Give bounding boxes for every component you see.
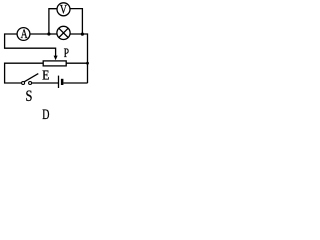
- wire: switch right contact to battery: [32, 82, 58, 84]
- rheostat P body: [43, 61, 66, 66]
- wire: lamp to right edge and down right side: [70, 34, 87, 83]
- junction: rheostat right lead at right edge wire: [86, 62, 89, 65]
- svg-text:A: A: [21, 26, 28, 41]
- battery E short thick plate: [61, 79, 64, 85]
- svg-text:P: P: [64, 45, 69, 60]
- lamp cross stroke 1: [59, 28, 68, 37]
- wire: voltmeter right lead with corner down to row2: [70, 9, 82, 34]
- switch S right contact: [29, 82, 32, 85]
- wire: row2 from left edge corner to ammeter, plus left drop to slider wire: [5, 34, 56, 57]
- ammeter A: [17, 28, 30, 41]
- battery E long plate: [58, 76, 60, 88]
- switch S left contact: [22, 82, 25, 85]
- lamp body: [57, 26, 70, 39]
- wire: battery to bottom right corner: [63, 82, 87, 84]
- wire: rheostat right lead to right edge: [66, 62, 87, 64]
- svg-text:D: D: [42, 107, 49, 123]
- wire: voltmeter left lead with corner down to row2: [49, 9, 57, 34]
- wire: ammeter to lamp: [30, 33, 57, 35]
- lamp cross stroke 2: [59, 28, 68, 37]
- svg-text:S: S: [26, 88, 33, 105]
- junction: voltmeter left tap on main wire: [47, 32, 50, 35]
- switch S blade: [24, 74, 38, 82]
- junction: voltmeter right tap on main wire: [81, 33, 84, 36]
- voltmeter V: [57, 3, 70, 16]
- svg-text:E: E: [42, 67, 49, 82]
- rheostat P slider arrow: [54, 56, 58, 61]
- svg-text:V: V: [60, 1, 67, 16]
- wire: rheostat left lead, down left side to switch row: [5, 63, 44, 83]
